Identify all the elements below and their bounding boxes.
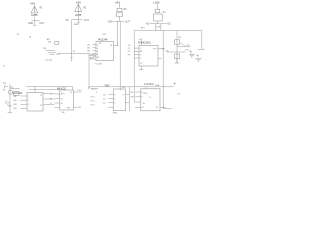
wire stub rail to U8	[145, 87, 147, 89]
svg-text:104: 104	[56, 54, 60, 56]
wire U5 right pins	[158, 49, 163, 59]
IC U3	[60, 90, 74, 110]
svg-text:VDD: VDD	[143, 93, 148, 95]
svg-text:10: 10	[61, 103, 63, 105]
wire cap top	[198, 49, 205, 51]
svg-text:OUT: OUT	[125, 22, 130, 24]
svg-text:R1: R1	[50, 98, 53, 100]
svg-text:2: 2	[140, 55, 142, 57]
svg-text:+5V: +5V	[138, 39, 142, 41]
svg-text:P0: P0	[128, 45, 131, 47]
wire	[166, 51, 185, 53]
wire	[119, 4, 121, 8]
svg-text:9: 9	[96, 92, 98, 94]
svg-text:11: 11	[61, 94, 63, 96]
wire rail B	[72, 19, 83, 21]
junction	[117, 45, 118, 46]
svg-text:1: 1	[28, 96, 29, 98]
wire branch	[177, 46, 190, 48]
svg-text:VO: VO	[186, 45, 189, 47]
svg-text:16: 16	[40, 95, 42, 97]
capacitor C1 (box)	[116, 13, 122, 16]
ground	[33, 21, 37, 25]
IC U8	[141, 89, 160, 111]
svg-text:T1: T1	[50, 94, 53, 96]
svg-text:P1.2: P1.2	[91, 104, 96, 106]
resistor R4	[55, 42, 59, 45]
svg-text:Y1 12M: Y1 12M	[95, 64, 102, 66]
svg-text:A1: A1	[87, 44, 90, 47]
svg-text:NC: NC	[167, 24, 171, 26]
svg-text:A: A	[143, 102, 145, 105]
svg-text:GND: GND	[28, 23, 33, 25]
svg-text:R2: R2	[83, 7, 87, 9]
svg-text:GND: GND	[74, 24, 79, 26]
ground	[77, 20, 80, 23]
svg-text:OE: OE	[98, 43, 102, 45]
svg-text:Q1: Q1	[3, 90, 7, 92]
wires U3 right pins	[74, 92, 78, 107]
transistor Q3 emitter arrow	[180, 42, 185, 46]
wire tail	[163, 107, 171, 109]
wire bus right of U7	[129, 87, 131, 111]
wire branch right	[71, 52, 89, 54]
wire stub	[89, 58, 96, 60]
ground	[8, 112, 13, 114]
svg-text:+12V: +12V	[153, 0, 160, 4]
wire long drop to U7	[119, 21, 121, 90]
wire	[119, 16, 121, 21]
svg-text:7407: 7407	[104, 85, 110, 87]
IC U5	[139, 46, 158, 67]
svg-text:8: 8	[123, 94, 124, 96]
resistor R8	[175, 54, 180, 59]
svg-text:NO: NO	[146, 24, 150, 26]
svg-text:10K: 10K	[48, 42, 52, 44]
svg-text:P1: P1	[128, 48, 131, 50]
svg-text:D0: D0	[103, 94, 106, 96]
svg-text:P2: P2	[128, 51, 131, 53]
ground	[174, 59, 179, 63]
wire rail D	[150, 23, 167, 25]
svg-text:4.7K: 4.7K	[185, 49, 190, 51]
wire rail bottom 1	[26, 86, 174, 90]
IC U6	[27, 93, 43, 112]
resistor R5	[14, 92, 19, 96]
svg-text:14: 14	[70, 92, 72, 94]
svg-text:ULN2003: ULN2003	[13, 93, 23, 95]
svg-text:22K: 22K	[43, 48, 47, 50]
svg-text:P3: P3	[128, 55, 131, 57]
svg-text:K1: K1	[163, 12, 167, 14]
svg-text:X1: X1	[73, 51, 76, 53]
wire twin drop 1	[155, 24, 157, 31]
wire	[77, 11, 79, 19]
svg-text:6: 6	[97, 51, 99, 53]
svg-text:S1: S1	[17, 34, 20, 36]
wire stem Q1	[9, 84, 11, 113]
svg-text:RESET: RESET	[91, 89, 99, 91]
svg-text:D1: D1	[103, 98, 106, 100]
svg-text:+5V: +5V	[102, 34, 106, 36]
wire rail bottom 2	[29, 89, 60, 91]
svg-text:3: 3	[28, 104, 29, 106]
connector J2	[5, 85, 8, 89]
resistor R7	[175, 40, 180, 45]
pin stubs U3 left	[54, 94, 59, 107]
svg-text:2: 2	[28, 100, 29, 102]
IC U7	[114, 89, 126, 111]
transistor Q1	[8, 90, 12, 94]
svg-text:GND: GND	[113, 112, 118, 114]
svg-text:162A: 162A	[155, 84, 160, 87]
wire to node	[58, 52, 72, 54]
wire drop to U4	[117, 21, 119, 45]
svg-text:EN: EN	[131, 97, 134, 99]
svg-text:16: 16	[156, 107, 158, 109]
svg-text:VS-: VS-	[62, 112, 66, 114]
wire stub	[89, 54, 96, 56]
capacitor C2	[48, 53, 56, 55]
wire rail 2	[134, 31, 202, 50]
svg-text:3: 3	[114, 102, 115, 104]
resistor R3	[117, 8, 122, 11]
relay K1	[153, 14, 162, 21]
capacitor C6 (polarized)	[189, 50, 195, 58]
svg-text:P2: P2	[178, 94, 181, 96]
svg-text:18: 18	[110, 45, 112, 47]
svg-text:4: 4	[97, 48, 99, 50]
wires U7 right pins	[126, 95, 130, 103]
svg-text:LCD1602: LCD1602	[144, 84, 154, 86]
svg-text:AT89C2051: AT89C2051	[138, 42, 152, 45]
capacitor C7 (polarized)	[195, 54, 201, 62]
wire long drop right	[162, 31, 164, 108]
svg-text:11: 11	[97, 57, 100, 59]
svg-text:GND: GND	[108, 22, 113, 24]
svg-text:4: 4	[142, 92, 143, 94]
svg-text:3: 3	[140, 58, 142, 60]
wire U5 top stub	[140, 40, 142, 45]
svg-text:LED: LED	[8, 105, 12, 107]
wire rail C	[114, 20, 125, 22]
diode D1 (triangle)	[31, 6, 38, 13]
svg-text:IN4: IN4	[13, 108, 17, 110]
svg-text:A3: A3	[87, 50, 90, 53]
svg-text:1: 1	[114, 94, 115, 96]
wire stub rail to U6	[34, 86, 36, 92]
wire	[157, 21, 159, 24]
diode D2 (triangle)	[75, 4, 82, 11]
svg-text:6: 6	[142, 97, 143, 99]
wire twin drop 2	[160, 24, 162, 31]
svg-text:15: 15	[142, 107, 144, 109]
svg-text:R3: R3	[124, 9, 128, 11]
svg-text:A2: A2	[87, 47, 90, 50]
svg-text:14: 14	[40, 105, 42, 107]
svg-text:IN2: IN2	[13, 100, 17, 102]
wire	[10, 88, 20, 90]
svg-text:+5: +5	[29, 37, 32, 39]
junction	[163, 48, 164, 49]
wire U5 to U8	[134, 31, 141, 102]
wire U5 bottom stub + ground	[139, 66, 143, 70]
svg-text:12: 12	[61, 98, 63, 100]
svg-text:COM: COM	[156, 26, 161, 28]
junction	[163, 107, 164, 108]
LED D3 arrows	[5, 100, 10, 105]
svg-text:XT: XT	[140, 63, 143, 65]
svg-text:R7: R7	[179, 37, 183, 39]
svg-text:P1.0: P1.0	[91, 96, 96, 98]
svg-text:OUT: OUT	[84, 20, 89, 22]
svg-text:P1: P1	[3, 83, 6, 85]
svg-text:74LS244: 74LS244	[97, 39, 108, 42]
svg-text:IN1: IN1	[13, 96, 17, 98]
svg-text:K: K	[150, 97, 152, 99]
pin stubs U4 left	[93, 45, 96, 57]
svg-text:RLY: RLY	[141, 27, 146, 29]
svg-text:12: 12	[140, 51, 143, 53]
svg-text:TIN: TIN	[67, 108, 71, 110]
svg-text:MAX232: MAX232	[57, 88, 67, 91]
wire rail A	[32, 20, 40, 22]
svg-text:VO: VO	[65, 20, 69, 22]
svg-text:R1: R1	[40, 8, 44, 10]
node plus mark	[174, 82, 176, 84]
svg-text:P1.1: P1.1	[91, 100, 96, 102]
wire	[45, 50, 54, 52]
wire drop from B	[71, 20, 73, 62]
svg-text:RS: RS	[131, 92, 134, 94]
IC U4	[96, 42, 114, 61]
svg-text:8: 8	[97, 54, 99, 56]
wire	[34, 5, 36, 6]
wire	[157, 4, 159, 10]
pin stubs U6 left	[20, 96, 27, 108]
svg-text:IN3: IN3	[13, 104, 17, 106]
arrowhead	[88, 87, 90, 89]
svg-text:OUT: OUT	[39, 23, 44, 25]
pin stubs U7 left	[108, 95, 113, 108]
wire U4 right pin	[114, 44, 118, 46]
wires U6 to U3	[43, 94, 54, 105]
wire arrow down	[89, 53, 90, 86]
svg-text:2: 2	[114, 98, 115, 100]
wire U8 right pin	[160, 106, 166, 108]
svg-text:P17: P17	[153, 49, 157, 51]
transistor Q2 (body)	[155, 9, 160, 12]
svg-text:RX: RX	[78, 107, 81, 109]
svg-text:D2: D2	[103, 102, 106, 104]
svg-text:1: 1	[140, 48, 142, 50]
svg-text:J1: J1	[3, 65, 6, 67]
pin stubs U8 left	[135, 92, 141, 107]
wire	[34, 17, 36, 21]
wire cluster stem	[176, 31, 178, 64]
pin stubs U5 left	[134, 48, 139, 58]
svg-text:C2 104: C2 104	[45, 60, 52, 62]
